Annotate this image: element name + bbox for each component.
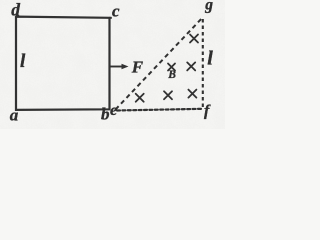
svg-text:e: e — [110, 102, 117, 119]
svg-text:d: d — [11, 0, 20, 20]
svg-text:g: g — [204, 0, 213, 13]
svg-text:c: c — [112, 1, 120, 20]
svg-text:a: a — [10, 105, 19, 124]
svg-text:F: F — [131, 58, 144, 77]
svg-text:l: l — [207, 48, 213, 70]
svg-text:b: b — [101, 104, 110, 123]
svg-text:l: l — [20, 51, 26, 72]
svg-text:B: B — [167, 69, 176, 81]
